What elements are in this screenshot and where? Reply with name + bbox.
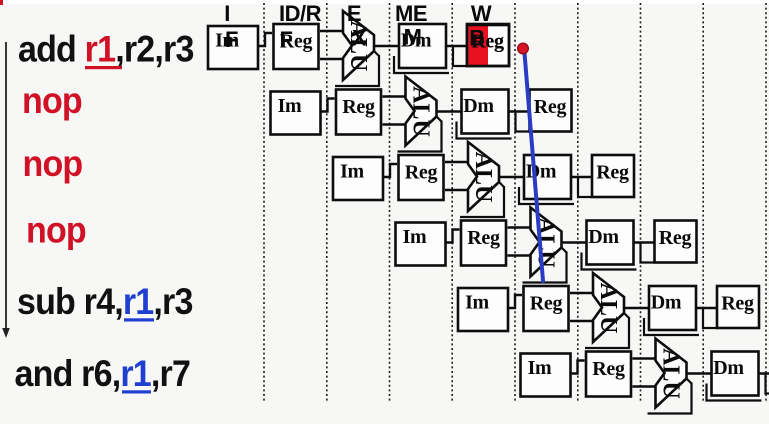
svg-text:I: I xyxy=(224,1,230,26)
svg-text:M: M xyxy=(404,25,422,50)
svg-text:sub r4,r1,r3: sub r4,r1,r3 xyxy=(17,281,193,323)
svg-text:X: X xyxy=(352,26,367,51)
svg-text:nop: nop xyxy=(26,209,86,251)
svg-text:W: W xyxy=(471,1,492,26)
svg-text:nop: nop xyxy=(23,143,83,185)
svg-text:B: B xyxy=(469,26,484,51)
svg-text:F: F xyxy=(225,27,238,52)
svg-text:E: E xyxy=(347,1,361,26)
svg-text:ME: ME xyxy=(395,1,427,26)
svg-text:nop: nop xyxy=(22,80,82,122)
svg-text:ID/R: ID/R xyxy=(279,1,322,26)
svg-text:and r6,r1,r7: and r6,r1,r7 xyxy=(15,353,191,395)
svg-text:add r1,r2,r3: add r1,r2,r3 xyxy=(18,28,194,70)
svg-text:F: F xyxy=(280,27,293,52)
